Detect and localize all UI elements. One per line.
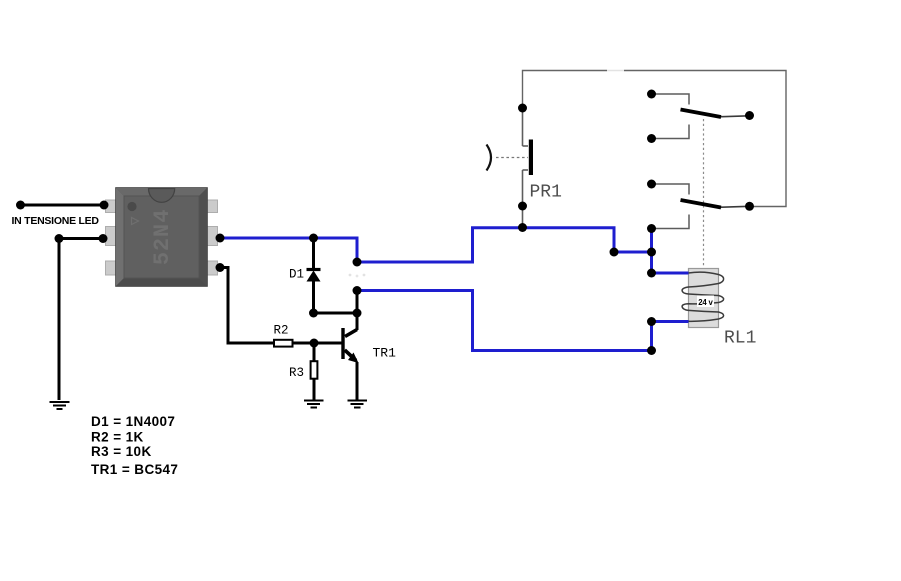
svg-text:R2 = 1K: R2 = 1K [91,430,144,445]
svg-text:R3: R3 [289,366,304,380]
svg-text:D1 = 1N4007: D1 = 1N4007 [91,414,175,429]
svg-text:4: 4 [150,209,175,222]
svg-text:N: N [150,224,175,237]
svg-text:TR1: TR1 [373,346,397,361]
svg-text:TR1 = BC547: TR1 = BC547 [91,462,178,477]
svg-text:IN TENSIONE LED: IN TENSIONE LED [12,215,100,227]
svg-text:R2: R2 [274,324,289,338]
svg-text:R3 = 10K: R3 = 10K [91,444,152,459]
svg-text:D1: D1 [289,268,304,282]
svg-text:2: 2 [150,238,175,251]
svg-text:24 v: 24 v [698,298,713,307]
svg-text:RL1: RL1 [724,329,756,349]
svg-text:PR1: PR1 [530,183,562,203]
svg-text:5: 5 [150,252,175,265]
